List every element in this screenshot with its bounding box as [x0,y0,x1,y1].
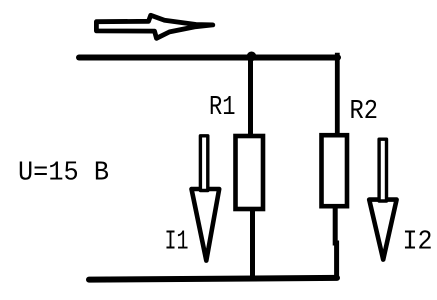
wire R2 bottom to bus [335,204,336,278]
svg-text:R1: R1 [209,93,236,123]
resistor R1 [236,136,264,209]
node junction dot [247,52,257,62]
svg-text:I2: I2 [403,228,433,258]
current direction arrow (top, hollow, pointing right) [96,15,212,38]
svg-text:I1: I1 [165,228,189,258]
svg-text:U=15 B: U=15 B [18,158,109,188]
arrow I2 head (hollow V) [369,200,396,260]
wire junction to R1 top [248,56,253,136]
wire bottom horizontal [89,278,337,280]
wire R1 bottom to bus [250,209,255,279]
resistor R2 [322,135,348,206]
wire top horizontal [79,55,338,61]
arrow I1 shaft [200,136,207,191]
arrow I1 head (hollow V) [192,189,220,261]
wire top to R2 top [335,53,340,136]
arrow I2 shaft [379,139,386,201]
svg-text:R2: R2 [350,97,379,127]
